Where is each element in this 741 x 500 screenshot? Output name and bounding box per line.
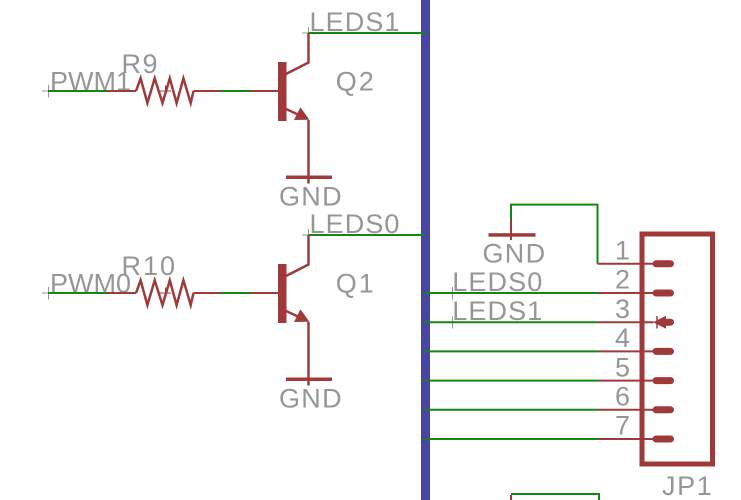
svg-text:4: 4 [615, 323, 630, 353]
svg-text:3: 3 [615, 294, 630, 324]
svg-text:1: 1 [615, 236, 630, 266]
svg-text:GND: GND [279, 182, 343, 212]
svg-text:Q1: Q1 [336, 268, 376, 298]
svg-text:R9: R9 [122, 49, 160, 79]
svg-text:2: 2 [615, 265, 630, 295]
svg-text:7: 7 [615, 411, 630, 441]
svg-text:GND: GND [483, 238, 547, 268]
svg-text:R10: R10 [122, 251, 178, 281]
svg-text:Q2: Q2 [336, 66, 376, 96]
svg-text:JP1: JP1 [662, 471, 713, 500]
svg-text:GND: GND [279, 384, 343, 414]
svg-text:5: 5 [615, 352, 630, 382]
svg-text:6: 6 [615, 382, 630, 412]
